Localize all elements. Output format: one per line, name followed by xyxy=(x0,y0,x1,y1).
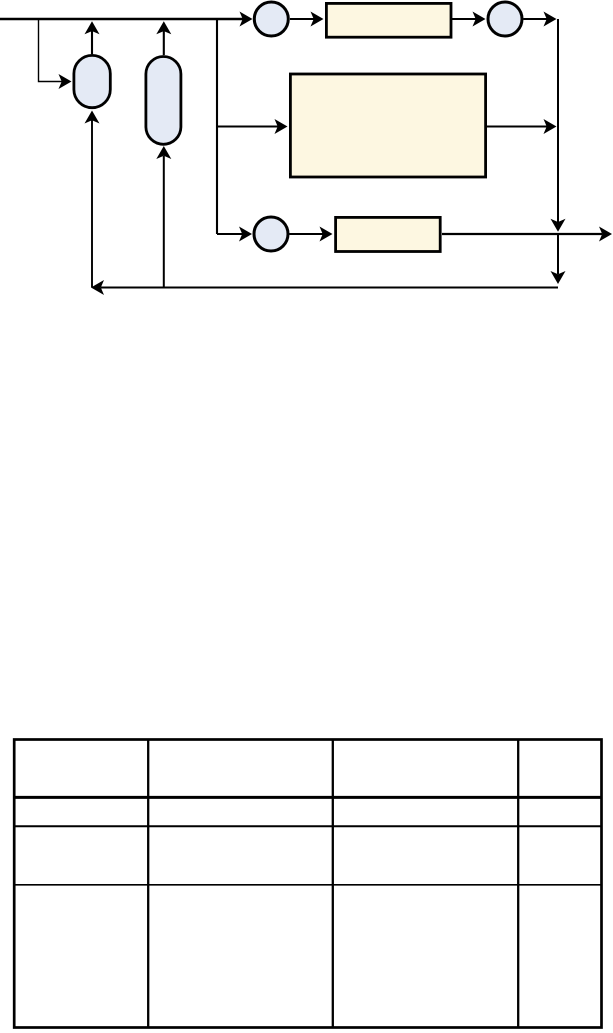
wire branch down from main line xyxy=(216,19,218,234)
mixer M3 circle xyxy=(254,217,288,251)
vessel V1 capsule xyxy=(74,55,110,107)
table outer border xyxy=(14,740,601,1028)
table header separator thick xyxy=(14,796,601,799)
wire B1 to mixer M2 xyxy=(452,12,486,27)
table row line 2 xyxy=(14,825,601,827)
wire junction down to recycle line xyxy=(551,234,566,284)
wire junction down line xyxy=(551,19,566,232)
wire recycle riser to V2 bottom xyxy=(156,146,171,288)
table column divider 1 xyxy=(147,740,149,1028)
wire B2 outlet to junction line xyxy=(487,119,557,134)
wire feed main line xyxy=(0,12,253,27)
wire recycle riser to V1 bottom xyxy=(85,111,100,288)
table column divider 2 xyxy=(332,740,334,1028)
wire V1 overhead to main line xyxy=(85,21,100,54)
wire M2 to junction xyxy=(524,12,557,27)
wire B3 product outlet xyxy=(442,227,612,242)
table column divider 3 xyxy=(517,740,519,1028)
table row line 3 xyxy=(14,884,601,886)
wire recycle return line xyxy=(91,280,558,295)
wire branch into mixer M3 xyxy=(217,227,252,242)
wire M1 to unit B1 xyxy=(290,12,324,27)
wire V2 overhead to main line xyxy=(156,21,171,55)
wire branch into reactor B2 xyxy=(217,119,288,134)
unit B3 box xyxy=(336,217,441,251)
wire M3 to unit B3 xyxy=(290,227,333,242)
mixer M1 circle xyxy=(254,2,288,36)
wire branch feed to vessel V1 xyxy=(39,19,72,89)
vessel V2 capsule xyxy=(146,57,181,145)
reactor B2 box xyxy=(290,74,485,177)
mixer M2 circle xyxy=(488,2,522,36)
unit B1 box xyxy=(326,3,451,37)
